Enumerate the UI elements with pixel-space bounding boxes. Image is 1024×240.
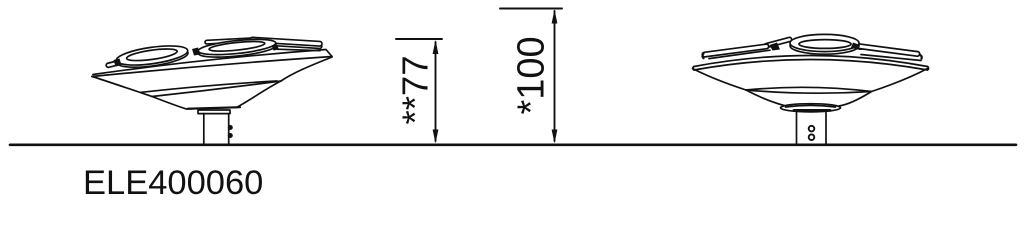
ground line bbox=[10, 144, 1016, 147]
bowl lower cone right side bbox=[839, 92, 872, 107]
svg-text:**77: **77 bbox=[394, 55, 435, 124]
rib top arc bbox=[746, 87, 872, 91]
center ring elevation bbox=[790, 34, 859, 54]
left wing tip droop bbox=[703, 54, 704, 59]
dim 77 vertical line bbox=[435, 42, 437, 141]
rim left tip cap bbox=[693, 67, 694, 71]
post elevation bbox=[796, 113, 798, 145]
svg-text:*100: *100 bbox=[511, 36, 553, 114]
rib bottom arc bbox=[746, 90, 872, 93]
right wing underside line bbox=[276, 49, 320, 50]
bolt 1 left view bbox=[228, 125, 233, 130]
right wing bbox=[250, 37, 322, 48]
post left view bbox=[203, 114, 205, 144]
rim top edge bbox=[93, 50, 332, 75]
back wing bbox=[205, 38, 252, 44]
dim 77 down arrow bbox=[433, 130, 439, 144]
dim 100 down arrow bbox=[552, 130, 558, 144]
dim 77 up arrow bbox=[433, 40, 439, 54]
bolt 2 elevation bbox=[809, 134, 815, 140]
left wing elevation bbox=[702, 44, 769, 57]
ring2-wing junction shade bbox=[272, 45, 280, 51]
right wing-ring junction shade bbox=[851, 43, 859, 50]
rim bottom edge bbox=[694, 60, 928, 71]
right wing underside line bbox=[861, 55, 921, 61]
ring 1 (left ring) bbox=[115, 42, 189, 70]
dim 100 vertical line bbox=[554, 11, 556, 141]
rim bottom edge bbox=[92, 57, 332, 77]
collar dark band bbox=[794, 109, 830, 112]
left wing underside line bbox=[709, 50, 770, 58]
bowl outline left bbox=[92, 57, 332, 109]
bowl upper cone right side bbox=[872, 69, 928, 92]
collar elevation bbox=[781, 104, 841, 112]
left wing bbox=[106, 60, 122, 68]
ring1-ring2 junction shade bbox=[192, 48, 201, 56]
dim 100 top tick bbox=[500, 8, 562, 10]
ring1-wing junction shade bbox=[114, 59, 122, 67]
ring 2 (right ring) bbox=[198, 36, 277, 60]
bolt 2 left view bbox=[228, 133, 233, 138]
right far blade elevation bbox=[835, 39, 863, 50]
rib back edge line bbox=[141, 81, 277, 92]
rim top edge bbox=[694, 56, 928, 67]
right wing tip droop bbox=[920, 55, 922, 59]
bowl lower cone left side bbox=[746, 90, 784, 106]
collar dark top bbox=[188, 107, 240, 109]
rim right tip cap bbox=[928, 67, 929, 71]
left far blade elevation bbox=[764, 37, 792, 48]
bowl upper cone left side bbox=[693, 69, 747, 91]
bolt 1 elevation bbox=[809, 126, 815, 132]
collar under cone bbox=[198, 110, 230, 114]
dim 100 up arrow bbox=[552, 10, 558, 24]
svg-text:ELE400060: ELE400060 bbox=[83, 164, 263, 202]
left wing-ring junction shade bbox=[770, 43, 781, 51]
dim 77 top tick bbox=[396, 38, 442, 40]
right wing elevation bbox=[848, 43, 920, 57]
rib upper line bbox=[152, 81, 281, 97]
